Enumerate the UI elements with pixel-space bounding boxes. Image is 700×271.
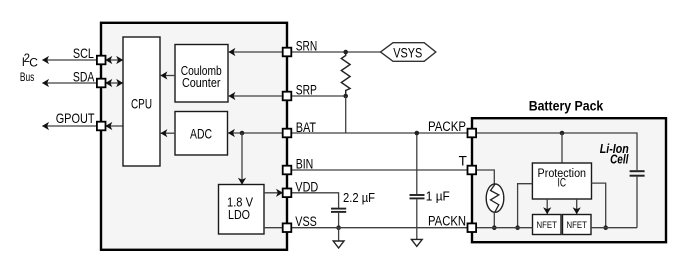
Coulomb Counter block xyxy=(175,45,228,103)
wire NFET to cell negative xyxy=(591,227,637,229)
wire GPOUT external xyxy=(43,125,102,127)
pin VSS xyxy=(283,223,292,232)
arrow into CPU from ADC xyxy=(160,129,167,137)
node thermistor PACKN junction xyxy=(492,225,497,230)
pin SRP xyxy=(283,92,292,101)
pin SCL xyxy=(97,56,106,65)
wire VSS ground stub xyxy=(338,228,340,241)
wire LDO to VDD pin xyxy=(264,192,283,194)
wire cell negative xyxy=(636,177,638,228)
thermistor RT1 xyxy=(486,184,504,212)
arrow into LDO xyxy=(238,178,246,185)
pin GPOUT xyxy=(97,122,106,131)
node BAT to LDO junction xyxy=(240,131,245,136)
resistor RS (sense) xyxy=(341,52,350,96)
node C1 VSS junction xyxy=(336,225,341,230)
arrow SCL left xyxy=(42,56,49,64)
ground GND1 xyxy=(333,241,344,248)
wire SDA internal xyxy=(105,82,123,84)
svg-text:NFET: NFET xyxy=(567,220,587,231)
ADC block xyxy=(175,112,228,156)
wire tap to Protection IC xyxy=(561,133,563,163)
arrow SCL into pin xyxy=(105,56,112,64)
node right wire junction xyxy=(603,225,608,230)
wire BAT to LDO xyxy=(241,133,243,184)
wire gate drive Q1 xyxy=(546,199,548,214)
svg-text:VDD: VDD xyxy=(295,178,318,194)
svg-text:SCL: SCL xyxy=(73,45,94,61)
pin SDA xyxy=(97,79,106,88)
svg-text:CPU: CPU xyxy=(131,96,152,112)
capacitor C1 2.2uF xyxy=(331,208,346,210)
1.8 V LDO block xyxy=(219,185,265,235)
svg-text:VSYS: VSYS xyxy=(393,44,422,60)
svg-text:T: T xyxy=(459,153,467,168)
pin BAT xyxy=(283,129,292,138)
node SRP junction xyxy=(343,94,348,99)
ground GND2 xyxy=(411,239,422,246)
svg-text:1 µF: 1 µF xyxy=(426,188,450,203)
wire Coulomb Counter to CPU xyxy=(160,75,175,77)
wire VSS net xyxy=(291,227,468,229)
wire SDA external xyxy=(43,82,102,84)
wire LDO to VSS pin xyxy=(264,227,283,229)
svg-text:2.2 µF: 2.2 µF xyxy=(343,190,375,205)
svg-text:BAT: BAT xyxy=(296,119,317,135)
arrow into CPU from Coulomb Counter xyxy=(160,71,167,79)
svg-text:NFET: NFET xyxy=(537,220,557,231)
wire SRN net xyxy=(228,51,381,53)
arrow GPOUT out of CPU xyxy=(105,122,112,130)
Protection IC block xyxy=(532,163,591,199)
node SRN junction xyxy=(343,50,348,55)
arrow into NFET Q1 xyxy=(543,207,551,214)
svg-text:C: C xyxy=(29,56,38,70)
wire C1 bottom to VSS xyxy=(338,213,340,228)
svg-text:IC: IC xyxy=(558,178,567,190)
svg-text:PACKP: PACKP xyxy=(428,119,466,134)
pin SRN xyxy=(283,48,292,57)
capacitor C2 1uF xyxy=(410,194,425,196)
svg-text:ADC: ADC xyxy=(190,125,212,141)
wire PACKN inside pack xyxy=(476,227,533,229)
wire Protection IC right to NFET drain xyxy=(592,183,606,228)
arrow into NFET Q2 xyxy=(573,207,581,214)
transistor Q2 NFET xyxy=(563,215,592,235)
svg-text:PACKN: PACKN xyxy=(428,214,466,229)
wire BAT net xyxy=(228,132,468,134)
battery cell BT1 Li-Ion xyxy=(630,170,645,172)
arrow SCL into CPU xyxy=(116,56,123,64)
svg-text:Cell: Cell xyxy=(610,152,629,166)
svg-text:Battery Pack: Battery Pack xyxy=(529,98,604,113)
node C2 BAT junction xyxy=(415,131,420,136)
pin BIN xyxy=(283,166,292,175)
wire VDD external xyxy=(291,193,339,208)
svg-text:SRN: SRN xyxy=(296,38,318,54)
arrow SRN into Coulomb Counter xyxy=(228,48,235,56)
wire SCL external xyxy=(43,59,102,61)
wire GPOUT internal xyxy=(105,125,123,127)
wire ADC to CPU xyxy=(160,132,175,134)
net flag VSYS xyxy=(381,43,436,62)
wire SRP to BAT xyxy=(345,96,347,133)
arrow into VDD pin xyxy=(276,189,283,197)
arrow GPOUT left xyxy=(42,122,49,130)
wire PACKP rail xyxy=(476,133,637,170)
pin PACKP xyxy=(468,129,477,138)
Battery Pack enclosure xyxy=(472,118,666,242)
node left wire PACKN junction xyxy=(515,225,520,230)
svg-text:BIN: BIN xyxy=(296,156,314,172)
capacitor C2 1uF top wire xyxy=(416,133,418,194)
fuel-gauge IC U1 outline xyxy=(101,23,287,250)
wire SRP net xyxy=(228,95,346,97)
arrow SDA left xyxy=(42,79,49,87)
pin PACKN xyxy=(468,223,477,232)
wire T to thermistor xyxy=(476,170,494,185)
svg-text:SRP: SRP xyxy=(296,82,317,98)
svg-text:LDO: LDO xyxy=(228,207,250,222)
arrow BAT into ADC xyxy=(228,129,235,137)
svg-text:Bus: Bus xyxy=(20,70,35,84)
wire gate drive Q2 xyxy=(576,199,578,214)
svg-text:VSS: VSS xyxy=(295,213,317,229)
wire C2 bottom to ground xyxy=(416,199,418,239)
arrow SDA into CPU xyxy=(116,79,123,87)
pin T xyxy=(468,166,477,175)
svg-text:Counter: Counter xyxy=(182,75,221,90)
arrow SDA into pin xyxy=(105,79,112,87)
wire BIN net xyxy=(291,169,468,171)
arrow SRP into Coulomb Counter xyxy=(228,92,235,100)
node Protection IC tap xyxy=(560,131,565,136)
svg-text:SDA: SDA xyxy=(73,68,95,84)
pin VDD xyxy=(283,189,292,198)
wire Protection IC left to PACKN xyxy=(518,184,533,228)
wire thermistor to PACKN xyxy=(493,211,495,227)
CPU block xyxy=(123,37,160,166)
wire SCL internal xyxy=(105,59,123,61)
transistor Q1 NFET xyxy=(533,215,562,235)
svg-text:GPOUT: GPOUT xyxy=(56,110,95,126)
